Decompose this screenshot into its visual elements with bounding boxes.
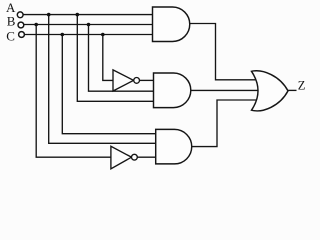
svg-text:C: C <box>6 28 15 43</box>
svg-text:Z: Z <box>298 78 306 92</box>
svg-text:B: B <box>7 14 16 29</box>
